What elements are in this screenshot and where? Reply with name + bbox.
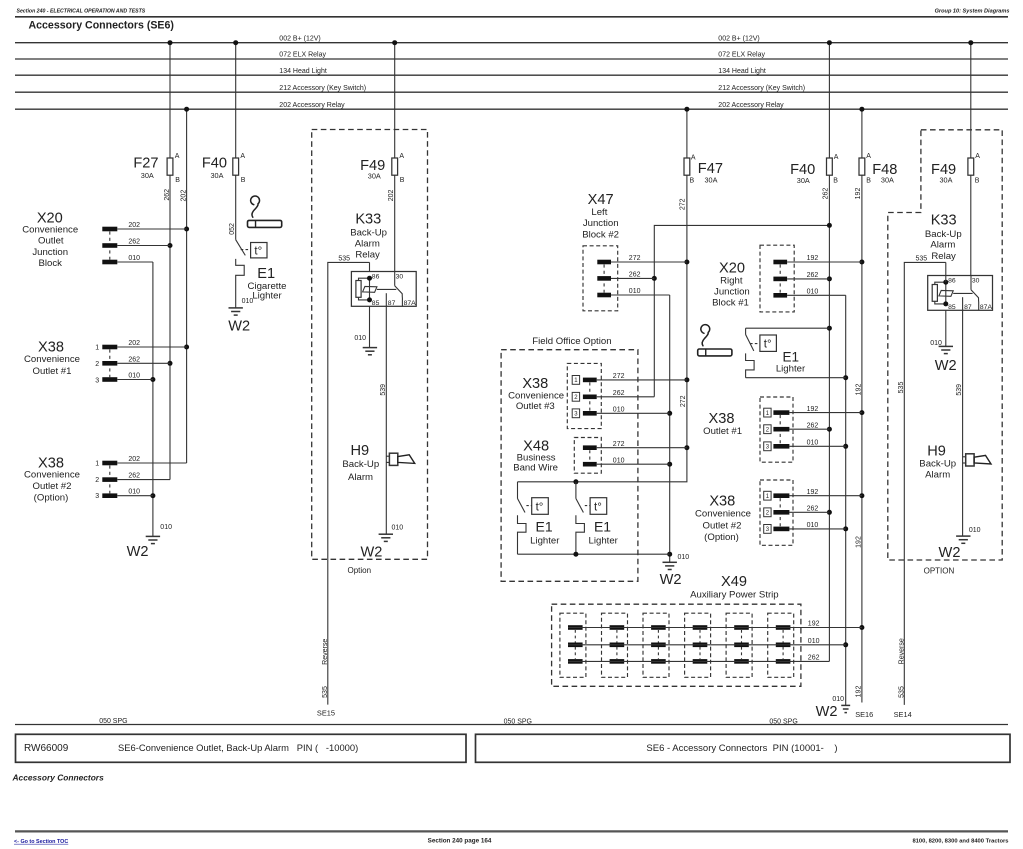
- wire 010 row X20 left: [117, 255, 153, 262]
- svg-text:Alarm: Alarm: [348, 472, 373, 483]
- svg-text:Convenience: Convenience: [508, 390, 564, 401]
- svg-text:E1: E1: [783, 349, 800, 364]
- svg-text:B: B: [241, 177, 246, 184]
- dashed OPTION box (right K33 / H9): [888, 130, 1002, 576]
- fuse F40 30A (right): [790, 40, 839, 185]
- svg-text:072 ELX Relay: 072 ELX Relay: [718, 52, 765, 59]
- node SE15: [317, 709, 335, 718]
- svg-text:212 Accessory (Key Switch): 212 Accessory (Key Switch): [279, 85, 366, 92]
- svg-text:A: A: [975, 153, 980, 160]
- svg-text:87A: 87A: [980, 304, 993, 311]
- wire 262 row X38#3: [597, 390, 655, 397]
- svg-text:Convenience: Convenience: [24, 470, 80, 481]
- svg-text:192: 192: [807, 489, 819, 496]
- svg-text:1: 1: [95, 344, 99, 351]
- svg-text:X49: X49: [721, 574, 747, 590]
- wire 192 net right (F48 output) to SE16: [855, 175, 864, 702]
- svg-text:010: 010: [629, 288, 641, 295]
- svg-text:262: 262: [613, 390, 625, 397]
- wire F49 to K33 pin 30 (right): [970, 175, 972, 275]
- dashed box Field Office Option: [501, 336, 638, 581]
- connector X38 Convenience Outlet #1: [24, 340, 117, 385]
- wire 272 net right (F47 output): [518, 175, 690, 484]
- relay K33 armature contact (right): [939, 290, 973, 296]
- svg-text:t°: t°: [254, 246, 262, 258]
- svg-text:Block #1: Block #1: [712, 298, 749, 309]
- svg-text:A: A: [691, 154, 696, 161]
- svg-text:262: 262: [128, 239, 140, 246]
- svg-text:F47: F47: [698, 161, 723, 177]
- wire 192 row X49: [568, 621, 862, 628]
- svg-text:072 ELX Relay: 072 ELX Relay: [279, 52, 326, 59]
- svg-text:SE14: SE14: [894, 710, 912, 719]
- svg-text:Junction: Junction: [583, 218, 619, 229]
- relay K33 pin labels (right): [948, 278, 992, 312]
- lamp E1 Lighter (right): [746, 328, 846, 378]
- svg-text:002 B+ (12V): 002 B+ (12V): [279, 35, 320, 42]
- svg-text:87A: 87A: [404, 300, 417, 307]
- ground W2 (K33 pin 85, right): [930, 310, 956, 374]
- wire 202 row X38#2 left: [117, 456, 186, 463]
- svg-text:010: 010: [613, 457, 625, 464]
- footer box SE6 - Accessory Connectors: [476, 734, 1011, 762]
- svg-text:262: 262: [128, 473, 140, 480]
- svg-text:262: 262: [164, 189, 171, 201]
- svg-text:Alarm: Alarm: [930, 240, 955, 251]
- node SE14: [894, 710, 912, 719]
- wire 262 row X47: [611, 272, 654, 279]
- svg-text:262: 262: [128, 356, 140, 363]
- svg-text:535: 535: [898, 382, 905, 394]
- wire field office lighter bottom (010): [518, 552, 670, 557]
- svg-text:192: 192: [856, 536, 863, 548]
- svg-text:Reverse: Reverse: [322, 639, 329, 665]
- relay K33 pin 86 junction (left): [367, 276, 372, 281]
- relay K33 pin labels (left): [372, 274, 416, 308]
- svg-text:E1: E1: [594, 518, 611, 534]
- svg-text:Outlet #2: Outlet #2: [33, 481, 72, 492]
- svg-text:010: 010: [613, 407, 625, 414]
- svg-text:B: B: [833, 177, 838, 184]
- svg-text:134 Head Light: 134 Head Light: [279, 68, 327, 75]
- svg-text:535: 535: [322, 686, 329, 698]
- svg-text:202: 202: [388, 189, 395, 201]
- svg-text:t°: t°: [536, 501, 544, 513]
- svg-text:Convenience: Convenience: [22, 224, 78, 235]
- relay K33 pin 86 junction (right): [943, 280, 948, 285]
- svg-text:B: B: [400, 177, 405, 184]
- svg-text:Back-Up: Back-Up: [919, 459, 956, 470]
- wire 010 row X38#3: [597, 407, 670, 414]
- svg-text:Lighter: Lighter: [252, 290, 282, 301]
- wire 010 row X38#2 right: [789, 522, 845, 529]
- alarm H9 Back-Up Alarm (right): [919, 444, 991, 481]
- relay K33 pin 30 stub and blade (right): [971, 276, 979, 311]
- wire 262 row X38#1 left: [117, 356, 170, 363]
- svg-text:262: 262: [807, 422, 819, 429]
- wire 202 row X20 left: [117, 222, 186, 229]
- svg-text:3: 3: [95, 493, 99, 500]
- svg-text:SE6 - Accessory Connectors PI: SE6 - Accessory Connectors PIN (10001- ): [646, 743, 837, 754]
- fuse F49 30A (right): [931, 40, 980, 184]
- connector X47 Left Junction Block #2: [582, 192, 619, 311]
- svg-text:K33: K33: [931, 213, 957, 229]
- svg-text:B: B: [975, 177, 980, 184]
- svg-text:86: 86: [372, 274, 380, 281]
- title: [29, 19, 174, 31]
- label Accessory Connectors: [12, 773, 105, 783]
- relay K33 pin 30 stub and blade (left): [395, 272, 403, 307]
- svg-text:Accessory Connectors: Accessory Connectors: [12, 773, 105, 783]
- wire 202 row X38#1 left: [117, 340, 186, 347]
- svg-text:W2: W2: [935, 358, 957, 374]
- svg-text:010: 010: [392, 525, 404, 532]
- svg-text:010: 010: [808, 638, 820, 645]
- svg-text:SE6-Convenience Outlet, Back-U: SE6-Convenience Outlet, Back-Up Alarm PI…: [118, 742, 358, 753]
- relay K33 pin 85 junction (left): [367, 297, 372, 302]
- svg-text:Convenience: Convenience: [24, 354, 80, 365]
- wire 272 row X48: [597, 441, 687, 448]
- svg-text:W2: W2: [127, 544, 149, 560]
- ground W2 (E1 left): [228, 298, 253, 335]
- svg-text:010: 010: [242, 298, 254, 305]
- ground W2 (left outlets): [127, 524, 172, 560]
- svg-text:262: 262: [807, 506, 819, 513]
- svg-text:H9: H9: [927, 444, 946, 460]
- ground W2 (K33 pin 85, left): [354, 306, 377, 355]
- svg-text:86: 86: [948, 278, 956, 285]
- svg-text:Outlet #1: Outlet #1: [703, 426, 742, 437]
- svg-text:Junction: Junction: [714, 287, 750, 298]
- footer box RW66009 SE6-Convenience Outlet, Back-Up Alarm: [16, 734, 467, 762]
- svg-text:Lighter: Lighter: [530, 536, 560, 547]
- svg-text:30A: 30A: [705, 176, 718, 185]
- svg-text:E1: E1: [257, 266, 275, 282]
- svg-text:202: 202: [128, 222, 140, 229]
- svg-text:A: A: [399, 153, 404, 160]
- svg-text:Reverse: Reverse: [898, 638, 905, 664]
- wire 262 row X20 left: [117, 239, 170, 246]
- svg-text:87: 87: [388, 300, 396, 307]
- svg-text:192: 192: [807, 406, 819, 413]
- svg-text:(Option): (Option): [704, 532, 739, 543]
- svg-text:2: 2: [95, 477, 99, 484]
- svg-text:272: 272: [680, 395, 687, 407]
- svg-text:2: 2: [95, 361, 99, 368]
- svg-text:W2: W2: [360, 544, 382, 560]
- svg-text:K33: K33: [355, 212, 381, 228]
- svg-text:262: 262: [823, 188, 830, 200]
- svg-text:X47: X47: [588, 192, 614, 208]
- svg-text:535: 535: [338, 256, 350, 263]
- wire 202 net left (from 202 Accessory Relay bus): [181, 107, 189, 463]
- svg-text:Convenience: Convenience: [695, 509, 751, 520]
- svg-text:A: A: [834, 154, 839, 161]
- svg-text:Alarm: Alarm: [925, 469, 950, 480]
- relay K33 Back-Up Alarm Relay label (left): [350, 212, 387, 261]
- svg-text:Option: Option: [348, 566, 372, 575]
- svg-text:Outlet: Outlet: [38, 236, 64, 247]
- relay K33 pin 87 stub (right): [962, 297, 964, 310]
- svg-text:Relay: Relay: [355, 250, 380, 261]
- bus wire 202 Accessory Relay: [15, 102, 1008, 109]
- ground W2 (field office): [660, 554, 690, 588]
- wire 272 row X38#3: [597, 373, 687, 380]
- lamp E1 Cigarette Lighter (left): [236, 240, 287, 308]
- svg-text:OPTION: OPTION: [924, 566, 955, 575]
- svg-text:Lighter: Lighter: [776, 364, 806, 375]
- bottom rule and footer texts: [14, 831, 1009, 845]
- fuse F27 30A: [133, 40, 180, 184]
- svg-text:Left: Left: [591, 207, 607, 218]
- wire 010 row X38#1 left: [117, 373, 153, 380]
- svg-text:A: A: [175, 153, 180, 160]
- wire 010 row X47: [611, 288, 670, 295]
- wire 192 row X38#2 right: [789, 489, 862, 496]
- svg-text:85: 85: [372, 300, 380, 307]
- svg-text:85: 85: [948, 304, 956, 311]
- connector X49 Auxiliary Power Strip: [552, 574, 801, 686]
- relay K33 armature contact (left): [363, 286, 397, 292]
- alarm H9 Back-Up Alarm (left): [342, 443, 414, 483]
- svg-text:30A: 30A: [940, 176, 953, 185]
- wire 539 (K33 87 to H9, left): [380, 306, 387, 534]
- bus wire 212 Accessory (Key Switch): [15, 85, 1008, 92]
- svg-text:272: 272: [629, 255, 641, 262]
- svg-text:W2: W2: [228, 319, 250, 335]
- fuse F40 30A (left): [202, 40, 246, 184]
- wire 052 (F40 to E1 lighter): [229, 175, 236, 240]
- svg-text:010: 010: [128, 373, 140, 380]
- svg-text:002 B+ (12V): 002 B+ (12V): [718, 35, 759, 42]
- svg-text:Outlet #3: Outlet #3: [516, 401, 555, 412]
- svg-text:Lighter: Lighter: [589, 536, 619, 547]
- svg-text:Right: Right: [720, 276, 743, 287]
- ground W2 (right 010 net, X49 area): [816, 696, 851, 720]
- connector X20 Convenience Outlet Junction Block: [22, 211, 117, 270]
- relay K33 box (left): [351, 272, 416, 307]
- svg-text:192: 192: [856, 686, 863, 698]
- svg-text:Group 10: System Diagrams: Group 10: System Diagrams: [935, 8, 1010, 14]
- svg-text:W2: W2: [816, 704, 838, 720]
- svg-text:Field Office Option: Field Office Option: [532, 336, 611, 347]
- connector X20 Right Junction Block #1: [712, 245, 794, 312]
- svg-text:t°: t°: [764, 339, 772, 351]
- connector X48 Business Band Wire: [513, 438, 601, 474]
- svg-text:272: 272: [613, 441, 625, 448]
- node SE16: [855, 710, 873, 719]
- svg-text:272: 272: [613, 373, 625, 380]
- svg-text:X38: X38: [709, 411, 735, 427]
- svg-text:010: 010: [128, 255, 140, 262]
- svg-text:1: 1: [95, 460, 99, 467]
- svg-text:262: 262: [808, 655, 820, 662]
- wire 272 row X47: [611, 255, 687, 262]
- svg-text:B: B: [866, 177, 871, 184]
- svg-text:Section 240 - ELECTRICAL OPERA: Section 240 - ELECTRICAL OPERATION AND T…: [17, 8, 146, 14]
- svg-text:H9: H9: [350, 443, 369, 459]
- fuse F49 30A (left): [360, 40, 405, 184]
- relay K33 box (right): [928, 276, 993, 311]
- svg-text:30A: 30A: [368, 172, 381, 181]
- svg-text:Block: Block: [38, 258, 62, 269]
- svg-text:Junction: Junction: [32, 247, 68, 258]
- relay K33 pin 85 junction (right): [943, 301, 948, 306]
- svg-text:010: 010: [807, 289, 819, 296]
- svg-text:192: 192: [807, 255, 819, 262]
- wire 262 row X20 right: [787, 272, 829, 279]
- fuse F47 30A: [684, 107, 723, 185]
- svg-text:Alarm: Alarm: [355, 238, 380, 249]
- relay K33 pin 87 stub (left): [385, 293, 387, 306]
- svg-text:SE16: SE16: [855, 710, 873, 719]
- svg-text:Relay: Relay: [931, 251, 956, 262]
- svg-text:262: 262: [807, 272, 819, 279]
- svg-text:262: 262: [629, 272, 641, 279]
- wire 010 row X38#2 left: [117, 489, 153, 496]
- wire 010 row X20 right: [787, 289, 846, 296]
- svg-text:202: 202: [128, 340, 140, 347]
- relay K33 coil (left): [356, 278, 370, 300]
- wire 010 net right (X47/field office): [667, 295, 672, 562]
- svg-text:202: 202: [128, 456, 140, 463]
- svg-text:t°: t°: [594, 501, 602, 513]
- relay K33 coil (right): [932, 282, 946, 304]
- svg-text:<- Go to Section TOC: <- Go to Section TOC: [14, 839, 68, 845]
- svg-text:134 Head Light: 134 Head Light: [718, 68, 766, 75]
- svg-text:272: 272: [680, 198, 687, 210]
- svg-text:B: B: [175, 177, 180, 184]
- lamp E1 Lighter (field office #2): [576, 482, 619, 554]
- svg-text:W2: W2: [939, 545, 961, 561]
- wire 010 row X48: [597, 457, 670, 464]
- svg-text:202 Accessory Relay: 202 Accessory Relay: [279, 102, 345, 109]
- svg-text:E1: E1: [536, 518, 553, 534]
- svg-text:010: 010: [678, 554, 690, 561]
- svg-text:535: 535: [898, 686, 905, 698]
- svg-text:Auxiliary Power Strip: Auxiliary Power Strip: [690, 589, 779, 600]
- wire 262 row X49: [568, 655, 829, 662]
- svg-text:30: 30: [972, 278, 980, 285]
- connector X38 Convenience Outlet #2 (Option, right): [695, 480, 793, 545]
- wire 535 / Reverse net left to SE15: [322, 256, 370, 705]
- svg-text:8100, 8200, 8300 and 8400 Trac: 8100, 8200, 8300 and 8400 Tractors: [912, 839, 1008, 845]
- svg-text:SE15: SE15: [317, 709, 335, 718]
- svg-text:010: 010: [128, 489, 140, 496]
- connector X38 Convenience Outlet #2 (Option): [24, 455, 117, 503]
- svg-text:052: 052: [229, 223, 236, 235]
- svg-text:202 Accessory Relay: 202 Accessory Relay: [718, 102, 784, 109]
- wire 262 net left (F27 output): [164, 175, 173, 479]
- 050 SPG labels and divider: [15, 718, 1008, 725]
- bus wire 002 B+ (12V): [15, 35, 1008, 42]
- cigarette icon (right E1): [698, 325, 732, 356]
- wire 192 row X20 right: [787, 255, 862, 262]
- svg-text:30A: 30A: [881, 176, 894, 185]
- svg-text:X20: X20: [719, 261, 745, 277]
- svg-text:30: 30: [396, 274, 404, 281]
- cigarette icon (left E1): [248, 196, 282, 227]
- svg-text:B: B: [690, 177, 695, 184]
- wire 010 row X38#1 right: [789, 440, 845, 447]
- svg-text:F40: F40: [202, 155, 227, 171]
- svg-text:(Option): (Option): [34, 493, 69, 504]
- svg-text:3: 3: [95, 377, 99, 384]
- wire 262 row X38#2 right: [789, 506, 829, 513]
- ground W2 (H9 right): [939, 527, 981, 561]
- svg-text:010: 010: [969, 527, 981, 534]
- svg-text:X38: X38: [709, 494, 735, 510]
- svg-text:Back-Up: Back-Up: [342, 459, 379, 470]
- svg-text:535: 535: [915, 256, 927, 263]
- svg-text:Accessory Connectors (SE6): Accessory Connectors (SE6): [29, 19, 174, 31]
- svg-text:539: 539: [380, 384, 387, 396]
- svg-text:Block #2: Block #2: [582, 229, 619, 240]
- svg-text:A: A: [866, 153, 871, 160]
- wire 202 (F49 to K33 pin 30): [388, 175, 395, 271]
- svg-text:W2: W2: [660, 572, 682, 588]
- svg-text:212 Accessory (Key Switch): 212 Accessory (Key Switch): [718, 85, 805, 92]
- wire 262 net right (F40 output): [652, 175, 832, 661]
- svg-text:30A: 30A: [211, 171, 224, 180]
- wire 262 row X38#1 right: [789, 422, 829, 429]
- svg-text:192: 192: [856, 384, 863, 396]
- svg-text:Section 240 page 164: Section 240 page 164: [428, 838, 492, 845]
- svg-text:010: 010: [807, 440, 819, 447]
- fuse F48 30A: [859, 107, 897, 185]
- ground W2 (H9 left): [360, 525, 403, 561]
- svg-text:Outlet #2: Outlet #2: [703, 520, 742, 531]
- wire 010 net left: [150, 262, 155, 536]
- svg-text:192: 192: [855, 188, 862, 200]
- lamp E1 Lighter (field office #1): [518, 482, 561, 554]
- bus wire 072 ELX Relay: [15, 52, 1008, 59]
- wire 539 (K33 87 to H9, right): [956, 310, 963, 536]
- svg-text:010: 010: [354, 335, 366, 342]
- svg-text:192: 192: [808, 621, 820, 628]
- relay K33 Back-Up Alarm Relay label (right): [925, 213, 962, 262]
- svg-text:010: 010: [807, 522, 819, 529]
- connector X38 Outlet #1 (right): [703, 397, 793, 462]
- svg-text:202: 202: [181, 190, 188, 202]
- svg-text:Outlet #1: Outlet #1: [33, 366, 72, 377]
- dashed option box (left K33 / H9): [312, 130, 428, 575]
- svg-text:539: 539: [956, 384, 963, 396]
- connector X38 Convenience Outlet #3: [508, 363, 601, 428]
- wire 010 net right (X20/E1/X38/X49): [843, 295, 848, 706]
- svg-text:Back-Up: Back-Up: [925, 229, 962, 240]
- svg-text:30A: 30A: [141, 171, 154, 180]
- wire 535 / Reverse net right to SE14: [898, 256, 946, 705]
- svg-text:Band Wire: Band Wire: [513, 463, 558, 474]
- wire 010 row X49: [568, 638, 846, 645]
- svg-text:F27: F27: [133, 155, 158, 171]
- page header: [15, 8, 1010, 16]
- svg-text:RW66009: RW66009: [24, 743, 69, 754]
- wire 192 row X38#1 right: [789, 406, 862, 413]
- svg-text:Back-Up: Back-Up: [350, 227, 387, 238]
- svg-text:30A: 30A: [797, 176, 810, 185]
- svg-text:010: 010: [832, 696, 844, 703]
- svg-text:010: 010: [160, 524, 172, 531]
- svg-text:A: A: [240, 153, 245, 160]
- wire 262 row X38#2 left: [117, 473, 170, 480]
- svg-text:87: 87: [964, 304, 972, 311]
- bus wire 134 Head Light: [15, 68, 1008, 75]
